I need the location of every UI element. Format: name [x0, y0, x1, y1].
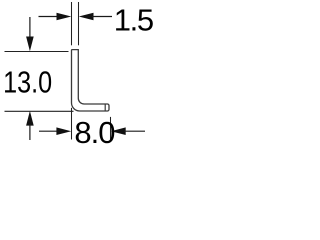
dim 13.0 top stub — [29, 17, 31, 39]
L-profile outline — [72, 50, 110, 111]
dim 1.5 right tail — [92, 16, 112, 18]
tip seam line — [104, 104, 106, 111]
dim 8.0 left tail — [39, 130, 60, 132]
dim 8.0 left arrow — [56, 127, 71, 135]
extension line 8.0 right (x=109.8) — [110, 117, 112, 140]
svg-text:8.0: 8.0 — [74, 115, 115, 150]
extension line 8.0 left (x=71.2) — [71, 108, 73, 140]
extension line right of leg top (x=78.5) — [78, 2, 80, 45]
dim 13.0 top arrow (down) — [26, 37, 34, 52]
extension line left of leg top (x=71.5) — [71, 2, 73, 45]
extension line top (y=51) — [5, 51, 69, 53]
dim 13.0 bottom stub — [29, 124, 31, 140]
svg-text:13.0: 13.0 — [3, 65, 52, 100]
extension line bottom (y=111) — [5, 110, 74, 112]
dim 8.0 right arrow — [111, 127, 126, 135]
dim 13.0 bottom arrow (up) — [26, 111, 34, 126]
dim 1.5 left tail — [39, 16, 61, 18]
dim 1.5 right arrow — [79, 13, 94, 21]
dim 1.5 left arrow — [57, 13, 72, 21]
dim 8.0 right tail — [124, 130, 145, 132]
svg-text:1.5: 1.5 — [114, 3, 153, 38]
